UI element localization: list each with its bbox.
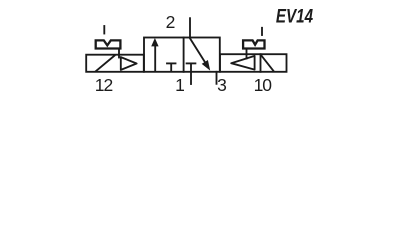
diagonal flow line right square — [190, 38, 206, 63]
svg-text:1: 1 — [175, 75, 185, 95]
port 3 line — [216, 72, 218, 84]
right actuator diagonal — [261, 55, 274, 71]
connector right coil to pilot box — [246, 49, 248, 59]
solenoid electrical tick right — [261, 28, 263, 35]
solenoid coil box left (rect with V notch on top) — [96, 40, 121, 48]
blocked port T left square — [170, 64, 172, 71]
left actuator diagonal — [96, 56, 115, 72]
flow arrowhead up — [151, 38, 158, 46]
svg-text:12: 12 — [95, 75, 113, 95]
svg-text:3: 3 — [217, 75, 227, 95]
solenoid electrical tick left — [103, 26, 105, 34]
valve body — [144, 38, 220, 72]
right box divider — [260, 54, 262, 72]
right pilot triangle — [231, 56, 254, 70]
port 2 line — [189, 18, 191, 37]
svg-text:EV14: EV14 — [276, 5, 313, 27]
svg-text:10: 10 — [254, 75, 273, 95]
solenoid coil box right — [243, 40, 264, 48]
left pilot triangle — [121, 57, 137, 70]
connector left coil to pilot box — [118, 49, 120, 58]
flow arrow shaft left square — [154, 45, 156, 72]
right actuator box — [220, 54, 287, 72]
diagonal arrowhead — [202, 60, 211, 71]
svg-text:2: 2 — [166, 12, 176, 32]
blocked port T right square — [190, 64, 192, 71]
valve divider — [183, 38, 185, 72]
left actuator box — [86, 55, 144, 72]
port 1 line — [190, 72, 192, 84]
